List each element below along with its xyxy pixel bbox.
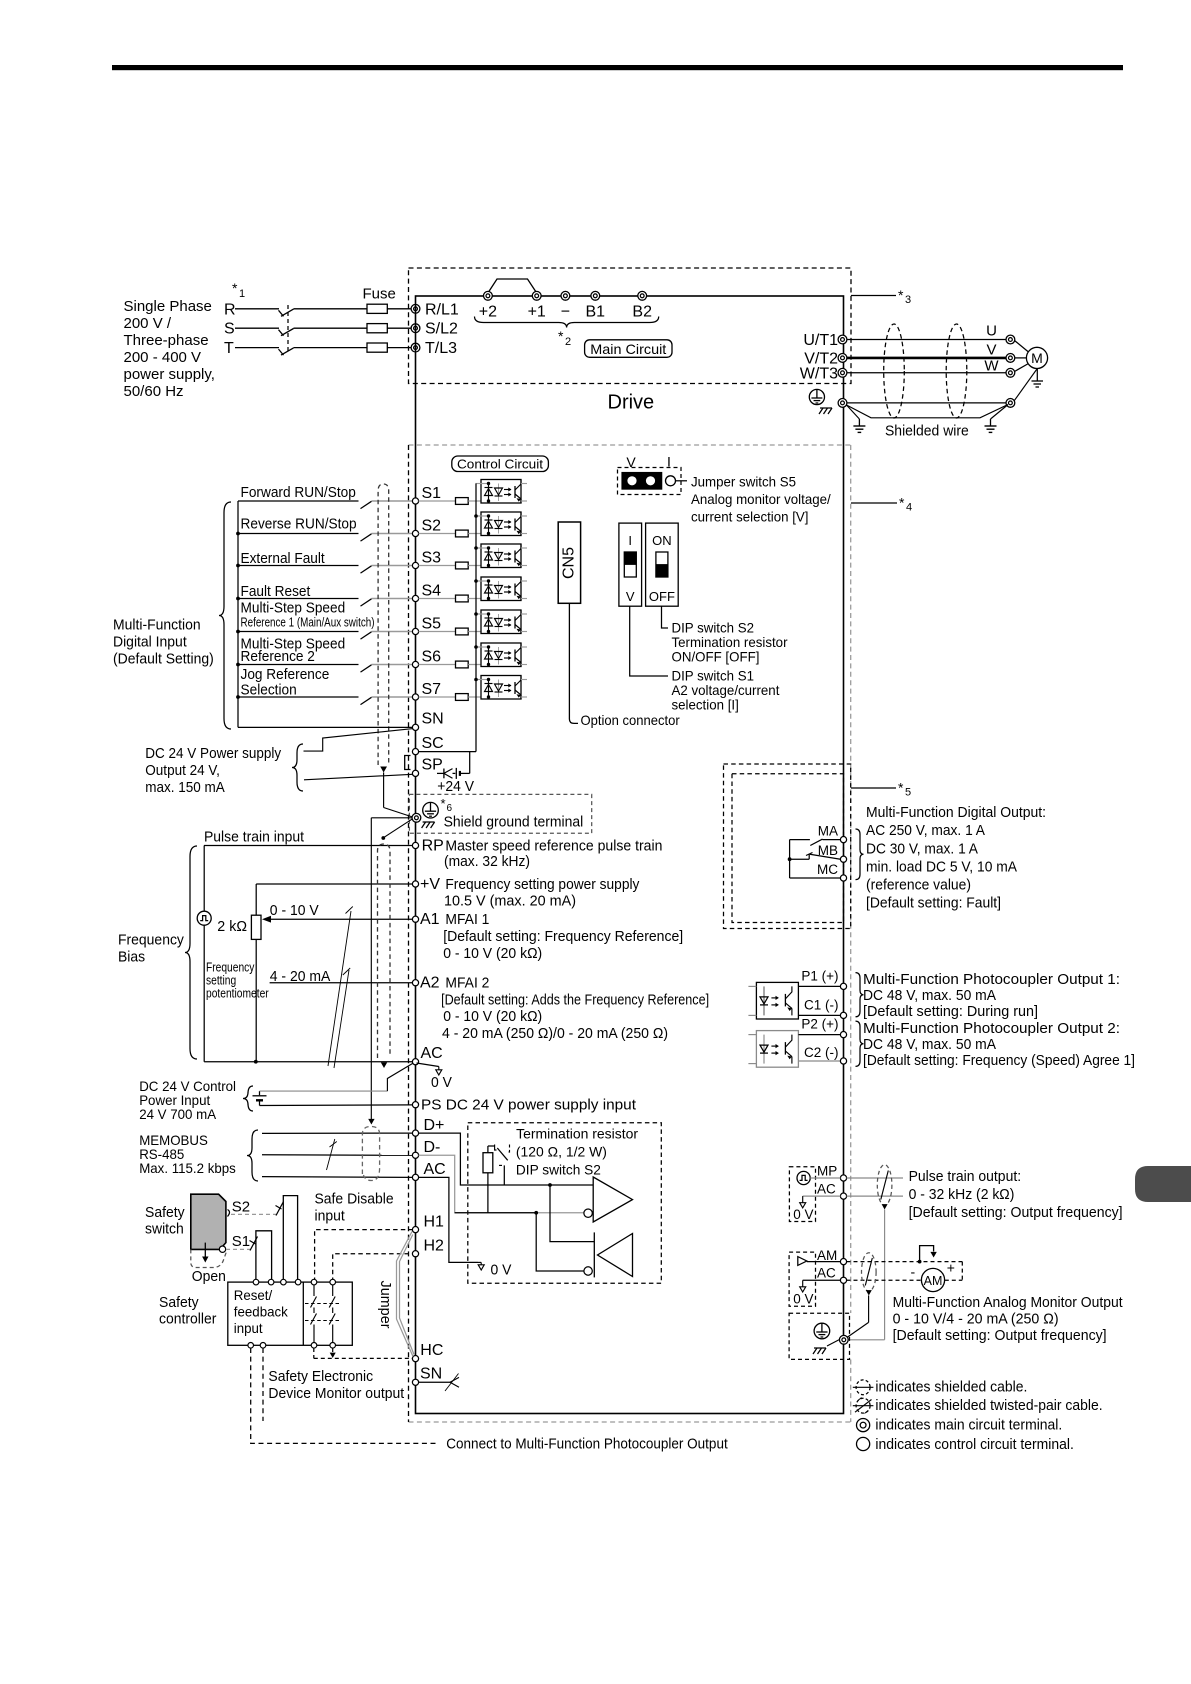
svg-text:power supply,: power supply, [124, 366, 215, 383]
svg-text:AM: AM [817, 1248, 837, 1263]
rail junction dot [474, 579, 478, 583]
svg-text:S/L2: S/L2 [425, 321, 458, 338]
legend main circuit terminal text [875, 1417, 1062, 1434]
legend twisted pair text [875, 1397, 1102, 1414]
wire input S2 left segment [238, 533, 359, 535]
main circuit dashed box [409, 268, 852, 384]
terminal S4 [412, 583, 441, 602]
motor terminal V [1006, 354, 1015, 363]
resistor S7 [456, 694, 469, 701]
wire shield drain upper [384, 773, 413, 818]
svg-text:input: input [234, 1320, 263, 1336]
safety EDM note [268, 1368, 404, 1402]
svg-text:+V: +V [420, 876, 440, 893]
DIP S1 note [672, 668, 780, 713]
drive PE symbol [809, 389, 824, 404]
shield ground dashed box [409, 794, 591, 833]
main circuit label box [585, 340, 672, 358]
frequency bias label [118, 932, 184, 966]
wire loop S2 [283, 1196, 297, 1282]
DIP switch S2 body [646, 523, 679, 606]
breaker mechanical link (dashed) [287, 305, 289, 352]
svg-text:ON/OFF [OFF]: ON/OFF [OFF] [672, 649, 760, 665]
DC 24V power supply note [145, 745, 281, 796]
svg-text:max. 150 mA: max. 150 mA [145, 779, 225, 796]
wire U [847, 339, 1006, 341]
motor ground [1032, 369, 1044, 388]
svg-text:S3: S3 [422, 550, 442, 567]
svg-text:AC: AC [421, 1045, 443, 1062]
svg-text:0 - 32 kHz (2 kΩ): 0 - 32 kHz (2 kΩ) [909, 1186, 1015, 1203]
wire breaker to fuse R [294, 308, 368, 310]
wire resistor S7 to optocoupler [468, 696, 481, 698]
junction dot S4 [236, 597, 240, 601]
terminal C1 [804, 998, 847, 1019]
svg-text:Reset/: Reset/ [234, 1287, 272, 1303]
svg-text:Bias: Bias [118, 949, 145, 966]
svg-text:Fuse: Fuse [363, 286, 396, 303]
breaker contact T [279, 348, 294, 355]
svg-text:I: I [628, 533, 632, 548]
svg-text:H2: H2 [424, 1238, 445, 1255]
switch arm S1 [250, 1237, 258, 1251]
svg-text:5: 5 [905, 787, 911, 799]
shield ground PE symbol [423, 802, 439, 818]
wire S1 to resistor [419, 500, 456, 502]
switch contact S7 [361, 697, 372, 704]
input label S7 [241, 666, 330, 698]
svg-text:P2 (+): P2 (+) [801, 1017, 838, 1032]
svg-text:RP: RP [422, 838, 444, 855]
wire motor leads [1015, 341, 1029, 372]
svg-text:2: 2 [565, 336, 571, 348]
wire input S5 right segment (gray) [372, 631, 413, 633]
svg-text:Frequency: Frequency [206, 961, 255, 975]
svg-text:Multi-Function: Multi-Function [113, 617, 201, 634]
driver triangle [584, 1177, 633, 1222]
wire S3 to resistor [419, 565, 456, 567]
terminal − [561, 291, 570, 320]
input label S6 [241, 636, 346, 665]
svg-text:PS DC 24 V power supply input: PS DC 24 V power supply input [421, 1097, 637, 1114]
terminal PE [838, 399, 847, 408]
svg-text:MA: MA [818, 824, 838, 839]
terminal SN safety [412, 1366, 442, 1386]
svg-text:D+: D+ [424, 1117, 445, 1134]
wire resistor S5 to optocoupler [468, 631, 481, 633]
legend twisted pair symbol [853, 1398, 874, 1414]
motor M [1026, 347, 1047, 368]
contact S2 label [232, 1199, 250, 1216]
connector CN5 [558, 522, 580, 603]
terminal D- [412, 1139, 440, 1158]
wire pulse source to AC [203, 925, 205, 1061]
wire input S5 left segment [238, 631, 359, 633]
svg-text:switch: switch [145, 1221, 184, 1238]
resistor S1 [456, 498, 469, 505]
svg-text:H1: H1 [424, 1214, 445, 1231]
svg-text:SC: SC [422, 735, 444, 752]
RP note [444, 838, 662, 871]
contact linkage (dashed) [305, 1304, 340, 1321]
rail junction dot [474, 514, 478, 518]
svg-text:Frequency setting power supply: Frequency setting power supply [445, 876, 639, 893]
drive PE hatch [819, 408, 832, 414]
legend shielded cable symbol [853, 1380, 874, 1395]
svg-text:+1: +1 [528, 304, 546, 321]
multi-function digital input note [113, 617, 214, 668]
svg-text:MC: MC [817, 862, 838, 877]
svg-text:S6: S6 [422, 649, 442, 666]
svg-text:Max. 115.2 kbps: Max. 115.2 kbps [139, 1160, 236, 1176]
svg-text:(max. 32 kHz): (max. 32 kHz) [444, 853, 530, 870]
svg-text:S1: S1 [232, 1233, 250, 1250]
terminal AM [817, 1248, 847, 1265]
svg-text:Option connector: Option connector [581, 712, 681, 728]
terminal AC monitor [817, 1266, 847, 1284]
brace digital inputs [219, 502, 231, 729]
contact S2 socket [228, 1210, 230, 1217]
svg-text:indicates shielded cable.: indicates shielded cable. [875, 1379, 1027, 1396]
wire EDM to HC (dashed) [314, 1348, 413, 1358]
twisted pair slash A [328, 907, 353, 1067]
svg-text:(Default Setting): (Default Setting) [113, 651, 214, 668]
safety switch label [145, 1204, 185, 1238]
svg-text:10.5 V (max. 20 mA): 10.5 V (max. 20 mA) [444, 893, 576, 910]
AM shield ellipse (dashed) [862, 1253, 877, 1296]
photocoupler output 1 note [863, 971, 1120, 1020]
svg-text:R/L1: R/L1 [425, 301, 459, 318]
wire H1 (dashed) [315, 1230, 413, 1282]
svg-text:A2: A2 [420, 975, 440, 992]
svg-text:CN5: CN5 [561, 547, 578, 579]
AM meter [921, 1268, 944, 1291]
svg-text:3: 3 [905, 294, 911, 306]
input label S1 [241, 484, 356, 501]
termination resistor dashed box [468, 1123, 662, 1284]
switch contact S1 [361, 501, 372, 508]
svg-text:min. load DC 5 V, 10 mA: min. load DC 5 V, 10 mA [866, 858, 1017, 875]
terminal MC [817, 862, 847, 881]
wire EDM output 1 (dashed) [251, 1348, 439, 1443]
svg-text:(120 Ω, 1/2 W): (120 Ω, 1/2 W) [516, 1144, 607, 1160]
drive enclosure (solid box) [416, 296, 844, 1414]
DC24V control note [139, 1078, 236, 1122]
wire P1 [798, 985, 840, 987]
svg-text:Selection: Selection [241, 681, 297, 698]
pulse output symbol [797, 1171, 810, 1184]
svg-text:Multi-Function Photocoupler Ou: Multi-Function Photocoupler Output 2: [863, 1020, 1120, 1037]
svg-text:Shielded wire: Shielded wire [885, 423, 969, 440]
shield ground label [444, 814, 584, 831]
meter minus label [910, 1264, 915, 1280]
wire AC monitor external (dashed) [847, 1279, 922, 1281]
svg-text:Device Monitor output: Device Monitor output [268, 1385, 404, 1402]
rail junction dot [474, 612, 478, 616]
svg-text:U/T1: U/T1 [803, 332, 838, 349]
svg-text:setting: setting [206, 974, 236, 988]
legend control circuit terminal text [875, 1436, 1074, 1453]
fuse FR [367, 304, 387, 313]
legend main circuit terminal symbol [857, 1419, 870, 1432]
wire resistor S4 to optocoupler [468, 598, 481, 600]
terminal SC [412, 735, 443, 755]
svg-text:S2: S2 [232, 1199, 250, 1216]
meter plus label [947, 1260, 955, 1276]
svg-text:Pulse train input: Pulse train input [204, 829, 305, 846]
potentiometer R1 [251, 915, 261, 939]
svg-text:Reference 2: Reference 2 [241, 648, 315, 665]
wire loop S1 [256, 1231, 272, 1282]
svg-text:Reverse RUN/Stop: Reverse RUN/Stop [241, 516, 357, 533]
svg-text:+: + [947, 1260, 955, 1276]
safety switch travel arrow [202, 1243, 208, 1263]
CN5 lead to option connector [569, 603, 578, 723]
terminal S1 [412, 485, 441, 504]
reset box bottom pin [330, 1343, 336, 1349]
terminal P2 [801, 1017, 846, 1038]
wire S5 to resistor [419, 631, 456, 633]
svg-text:controller: controller [159, 1311, 216, 1328]
junction dot S6 [236, 663, 240, 667]
terminal monitor ground [839, 1335, 848, 1344]
wire MP (gray) [810, 1177, 903, 1179]
jumper S5 note [691, 474, 831, 525]
digital input shield ellipse (dashed) [378, 484, 389, 773]
reset/feedback note [234, 1287, 289, 1336]
wire SC to opto rail [419, 751, 477, 753]
frequency setting potentiometer note [206, 961, 269, 1001]
brace DC24V control [243, 1086, 253, 1111]
svg-text:B1: B1 [586, 304, 606, 321]
receiver triangle [584, 1234, 633, 1277]
wire resistor S2 to optocoupler [468, 533, 481, 535]
svg-text:U: U [986, 323, 997, 340]
label I (jumper) [667, 454, 671, 470]
+24 V label [437, 778, 474, 795]
svg-text:Reference 1 (Main/Aux switch): Reference 1 (Main/Aux switch) [241, 615, 375, 630]
terminal P1 [801, 969, 846, 990]
svg-text:1: 1 [239, 288, 245, 300]
svg-text:C1 (-): C1 (-) [804, 998, 839, 1013]
analog shield ellipse (dashed) [378, 844, 391, 1068]
wire S2 to resistor [419, 533, 456, 535]
shielded wire label [885, 423, 969, 440]
svg-text:MFAI 1: MFAI 1 [445, 911, 489, 928]
svg-text:*: * [441, 796, 446, 811]
twisted pair slash serial [327, 1139, 337, 1170]
svg-text:External Fault: External Fault [241, 550, 326, 567]
wire shield drain to analog shield [381, 819, 412, 840]
wire resistor S1 to optocoupler [468, 500, 481, 502]
motor terminal W [1006, 368, 1015, 377]
marker *5 callout [851, 780, 911, 799]
wire C2 (gray) [798, 1060, 840, 1062]
wire input S7 left segment [238, 696, 359, 698]
svg-text:M: M [1031, 350, 1043, 366]
wire V (bold) [847, 357, 1006, 360]
wire S2 (gray dashed) [231, 1213, 276, 1215]
svg-text:R: R [224, 301, 236, 318]
svg-text:AM: AM [924, 1274, 943, 1288]
relay inner dashed box [732, 774, 844, 923]
svg-text:0 V: 0 V [793, 1207, 813, 1222]
svg-text:Main Circuit: Main Circuit [590, 341, 666, 357]
pulse shield drain (gray) [848, 1210, 885, 1340]
svg-text:[Default setting: Frequency (S: [Default setting: Frequency (Speed) Agre… [863, 1052, 1135, 1069]
monitor ground hatch [813, 1340, 839, 1354]
reset box top pin [253, 1279, 259, 1285]
contact S1 label [232, 1233, 250, 1250]
drive label [608, 392, 655, 414]
fuse FS [367, 324, 387, 333]
svg-text:Multi-Function Photocoupler Ou: Multi-Function Photocoupler Output 1: [863, 971, 1120, 988]
optocoupler PC5 [476, 610, 528, 634]
terminal S2 [412, 518, 441, 537]
MEMOBUS shield ellipse (dashed) [362, 1119, 379, 1181]
wire input S1 left segment [238, 500, 359, 502]
svg-text:[Default setting: Output frequ: [Default setting: Output frequency] [909, 1204, 1123, 1221]
terminal S/L2 [411, 321, 458, 338]
resistor S5 [456, 628, 469, 635]
jumper bridge +2 to +1 [488, 279, 537, 293]
breaker contact R [279, 309, 294, 316]
svg-text:+24 V: +24 V [437, 778, 474, 795]
phase R label [224, 301, 236, 318]
reset box top pin [268, 1279, 274, 1285]
svg-text:AC 250 V, max. 1 A: AC 250 V, max. 1 A [866, 822, 985, 839]
wire phase T to breaker [235, 347, 279, 349]
brace frequency bias [185, 846, 197, 1059]
+V note [444, 876, 640, 910]
wire W [847, 372, 1006, 374]
receiver vertical bar [593, 1232, 595, 1277]
svg-text:0 V: 0 V [431, 1074, 452, 1091]
svg-text:T: T [224, 340, 234, 357]
optocoupler PC3 [476, 544, 528, 568]
wire D- internal [419, 1155, 585, 1213]
svg-text:Safe Disable: Safe Disable [315, 1191, 394, 1208]
wire input S4 right segment (gray) [372, 598, 413, 600]
terminal S5 [412, 616, 441, 635]
wire receiver output [536, 1213, 584, 1271]
terminal R/L1 [411, 301, 459, 318]
monitor PE symbol [814, 1323, 830, 1339]
svg-text:Shield ground terminal: Shield ground terminal [444, 814, 584, 831]
svg-text:Connect to Multi-Function Phot: Connect to Multi-Function Photocoupler O… [446, 1436, 728, 1453]
input label S3 [241, 550, 326, 567]
wire AC pulse (gray) [803, 1195, 903, 1197]
junction dot S2 [236, 532, 240, 536]
jumper switch S5 body [622, 473, 662, 490]
fuse FT [367, 343, 387, 352]
resistor S6 [456, 661, 469, 668]
jumper loop H1-HC (gray) [397, 1232, 415, 1357]
terminal A2 [412, 975, 439, 992]
wire input S6 right segment (gray) [372, 664, 413, 666]
svg-text:Safety: Safety [145, 1204, 185, 1221]
svg-text:C2 (-): C2 (-) [804, 1045, 839, 1060]
safety switch body [191, 1194, 226, 1249]
reset box bottom pin [311, 1343, 317, 1349]
AM amp symbol [798, 1257, 807, 1266]
svg-text:S2: S2 [422, 518, 442, 535]
photocoupler output 2 note [863, 1020, 1135, 1069]
wire input S1 right segment (gray) [372, 500, 413, 502]
marker *3 callout [851, 287, 911, 306]
svg-text:200 V /: 200 V / [124, 315, 172, 332]
wire AC monitor [803, 1279, 841, 1281]
svg-text:*: * [558, 328, 564, 344]
svg-text:I: I [667, 454, 671, 470]
svg-text:S5: S5 [422, 616, 442, 633]
terminal A1 [412, 911, 439, 928]
wire breaker to fuse S [294, 327, 368, 329]
reset box top pin [311, 1279, 317, 1285]
optocoupler PC1 [476, 480, 528, 504]
shield cable ellipse 1 (dashed) [884, 324, 905, 418]
svg-text:V: V [626, 454, 636, 470]
svg-text:[Default setting: Adds the Fre: [Default setting: Adds the Frequency Ref… [441, 992, 709, 1009]
motor terminal PE [1006, 399, 1015, 408]
control circuit label box [452, 456, 549, 472]
wire AM [807, 1261, 841, 1263]
shield ground hatch [421, 818, 435, 828]
svg-text:SN: SN [422, 711, 444, 728]
terminal MA [818, 824, 847, 843]
A1 note [443, 911, 683, 962]
terminal B1 [586, 291, 606, 320]
load loop symbol [920, 1246, 937, 1260]
svg-text:DC 30 V, max. 1 A: DC 30 V, max. 1 A [866, 840, 978, 857]
wire S7 to resistor [419, 696, 456, 698]
svg-text:selection [I]: selection [I] [672, 697, 739, 713]
brace under DC bus terminals [475, 317, 659, 328]
terminal +2 [479, 291, 497, 320]
resistor S3 [456, 562, 469, 569]
svg-text:MFAI 2: MFAI 2 [445, 975, 489, 992]
terminal shield ground [412, 813, 421, 822]
svg-text:Fault Reset: Fault Reset [241, 583, 312, 600]
terminal T/L3 [411, 340, 457, 357]
svg-text:Forward RUN/Stop: Forward RUN/Stop [241, 484, 356, 501]
svg-text:0 - 10 V (20 kΩ): 0 - 10 V (20 kΩ) [443, 1008, 542, 1025]
wire AC internal [419, 1177, 479, 1262]
brace DC24V power supply output [292, 744, 303, 791]
wire SN [238, 726, 413, 728]
brace relay outputs [856, 829, 864, 880]
wire PE to motor [847, 402, 1006, 404]
marker *6 [441, 796, 453, 814]
wire C1 [798, 1014, 840, 1016]
svg-text:Single Phase: Single Phase [124, 298, 212, 315]
relay outer dashed box [724, 764, 851, 929]
label 0-10V [270, 902, 319, 919]
contact S1 socket [219, 1246, 225, 1252]
terminal HC [412, 1342, 443, 1362]
digital input common rail [237, 501, 239, 727]
pulse source symbol [197, 911, 211, 925]
svg-text:*: * [898, 287, 904, 303]
terminal H1 [412, 1214, 444, 1233]
label V [986, 342, 996, 359]
svg-text:4: 4 [906, 502, 912, 514]
MP dashed box [789, 1167, 815, 1222]
svg-text:D-: D- [424, 1139, 441, 1156]
wire control power plus (gray) [260, 1064, 413, 1092]
DIP S2 note [672, 620, 788, 665]
wire input S3 right segment (gray) [372, 565, 413, 567]
